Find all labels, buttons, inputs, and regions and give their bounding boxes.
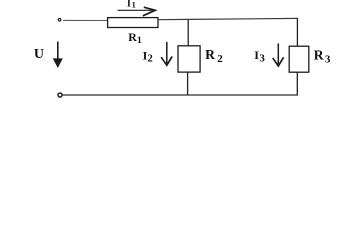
wire: top terminal to R1 [63, 19, 108, 21]
wire: R2 down to bottom wire [187, 72, 189, 95]
current arrow I2 (down, open head) [161, 42, 172, 66]
svg-text:U: U [34, 47, 44, 62]
resistor R1 (series box) [108, 18, 158, 28]
wire: R3 down to bottom wire [296, 72, 298, 95]
wire: top-right corner down to R3 [296, 18, 298, 46]
current arrow I3 (down, open head) [273, 43, 284, 66]
current arrow I1 (above R1) [118, 7, 156, 16]
svg-text:I2: I2 [143, 48, 153, 64]
terminal (top-left, open circle) [58, 19, 61, 22]
svg-text:R3: R3 [314, 48, 331, 66]
svg-text:R2: R2 [205, 47, 223, 65]
resistor R3 (shunt box) [289, 46, 309, 72]
wire: node A down to R2 [187, 19, 189, 45]
resistor R2 (shunt box) [178, 46, 200, 72]
wire: R1 to node A (junction of R2 branch) [158, 18, 188, 20]
voltage arrow U (down, solid head) [53, 42, 63, 68]
svg-text:R1: R1 [128, 30, 142, 46]
wire: bottom (return) [63, 94, 299, 96]
svg-text:I1: I1 [127, 0, 136, 10]
svg-text:I3: I3 [254, 48, 265, 65]
terminal (bottom-left, open circle) [58, 93, 62, 97]
wire: node A to top-right corner [188, 18, 298, 19]
